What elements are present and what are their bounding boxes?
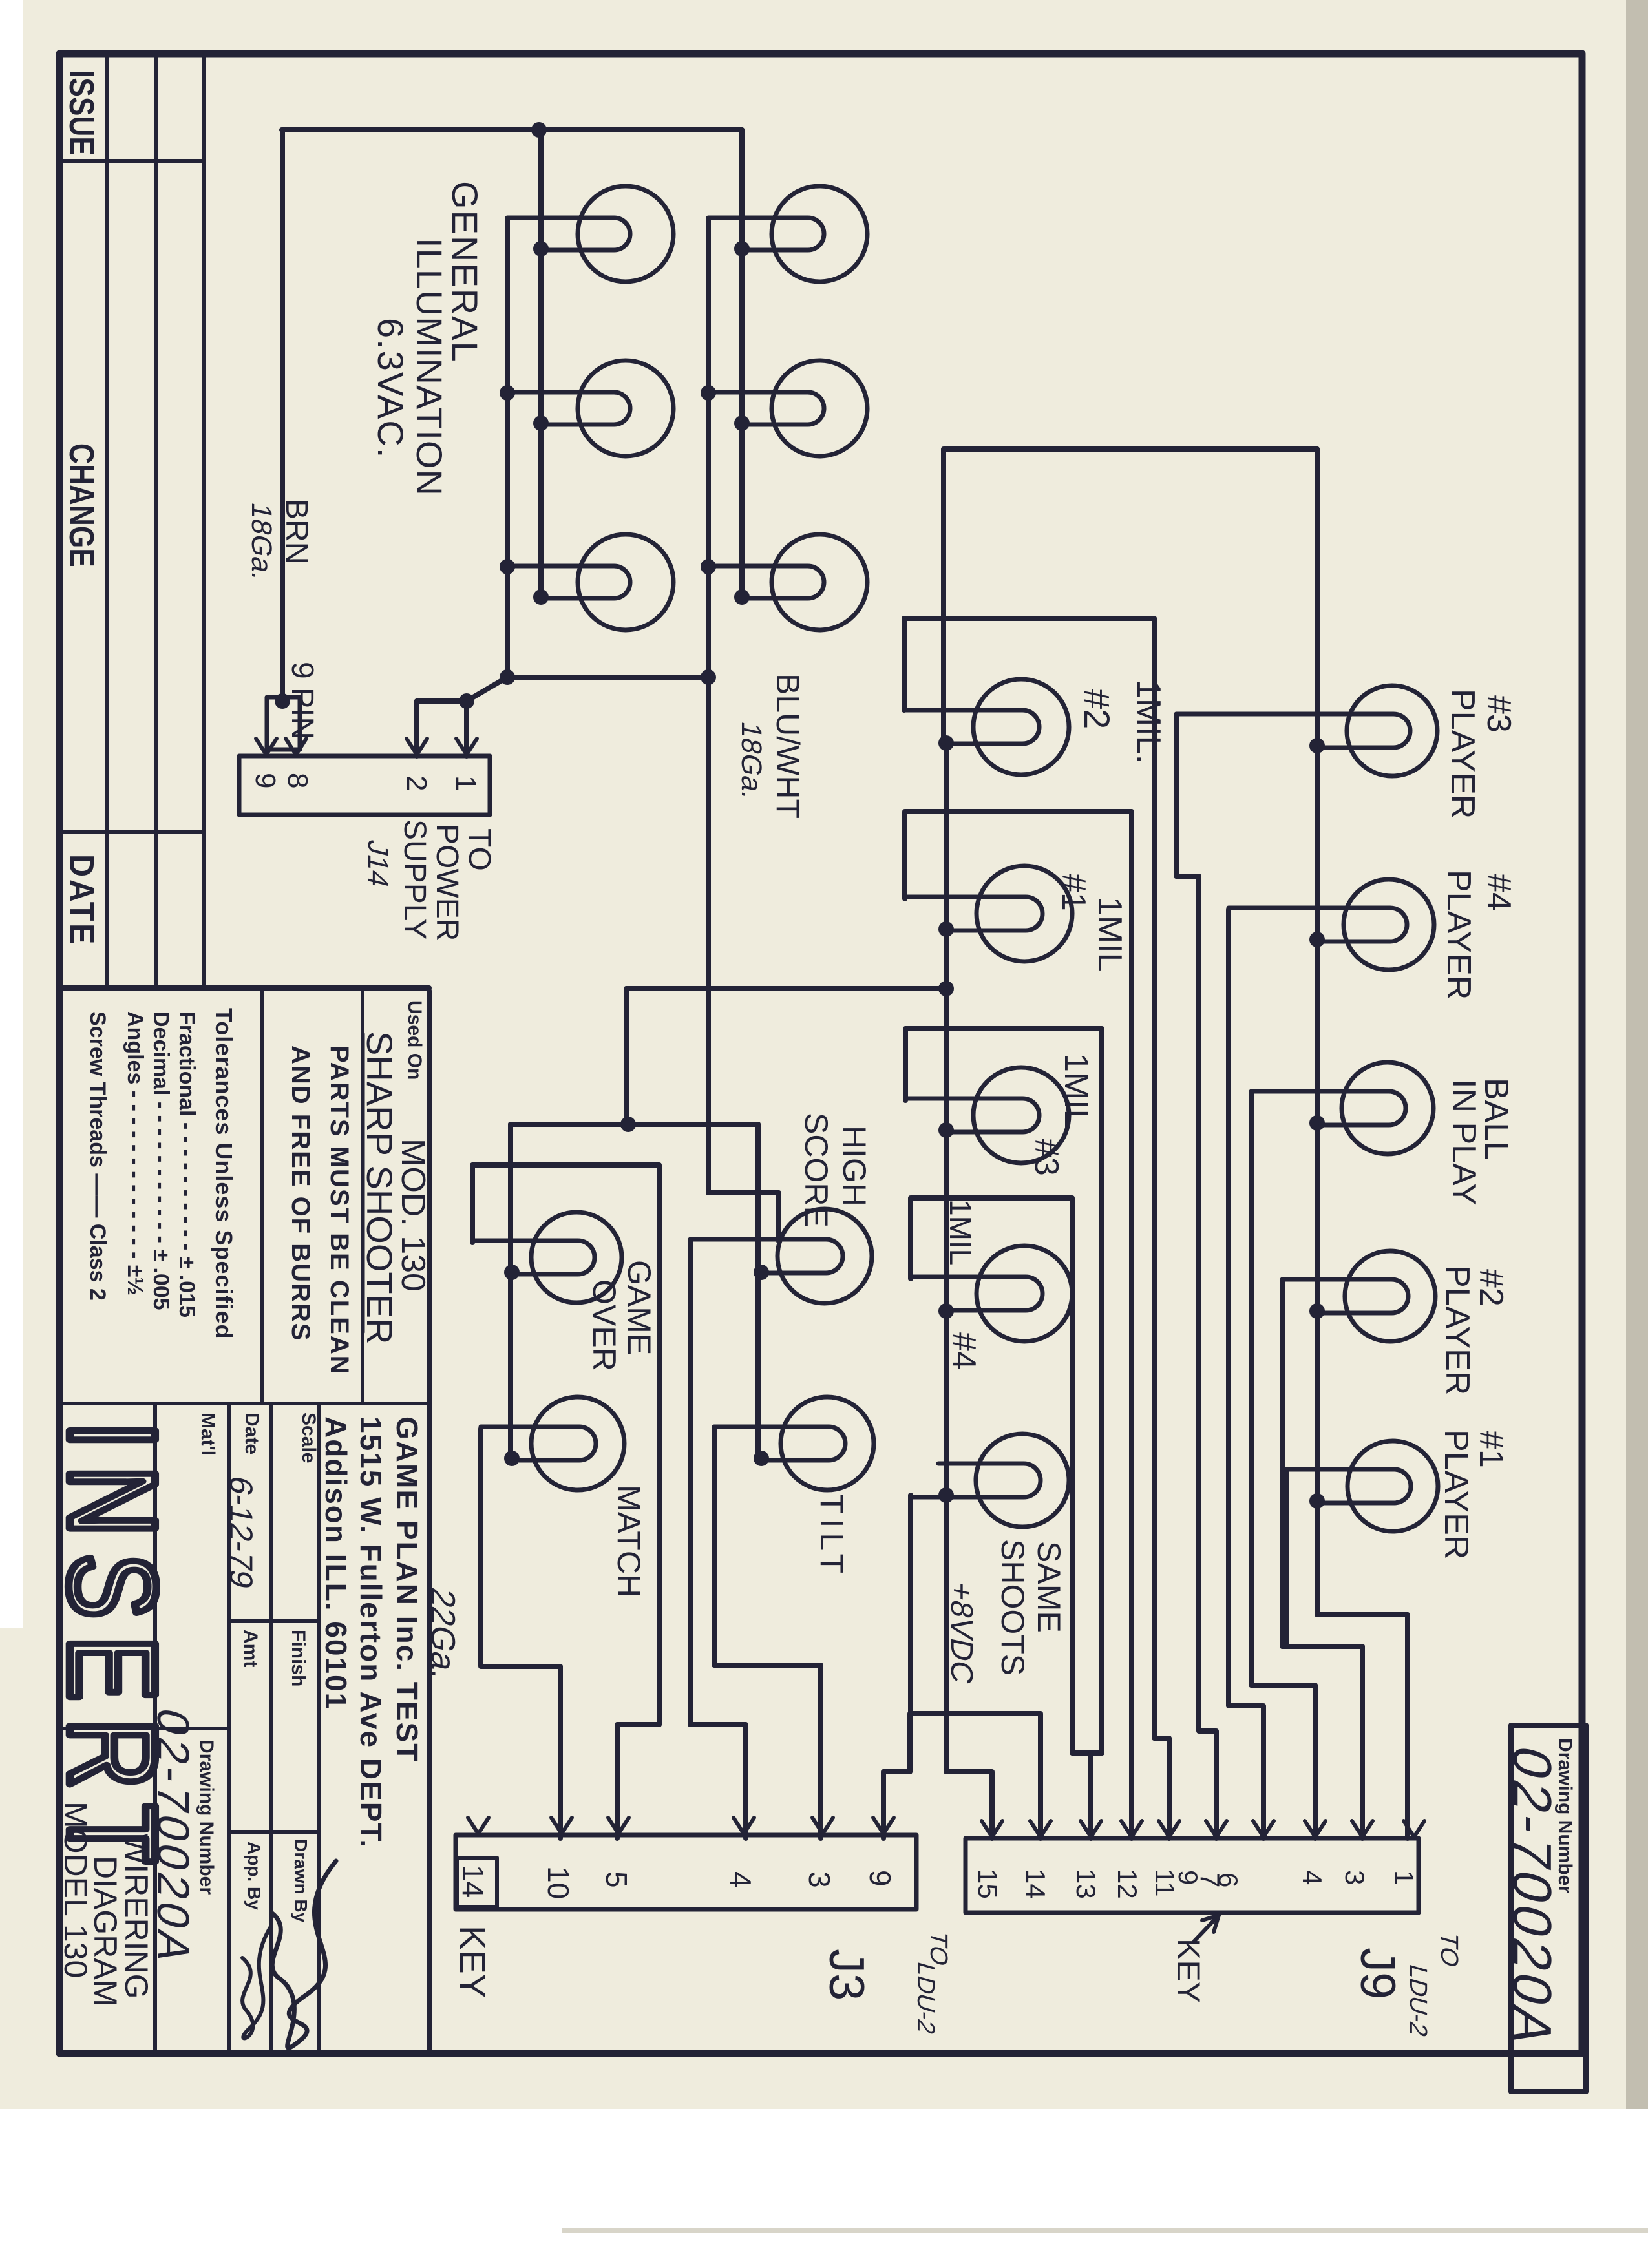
- svg-text:PLAYER: PLAYER: [1440, 870, 1477, 1000]
- svg-text:KEY: KEY: [452, 1926, 493, 1998]
- svg-text:3: 3: [803, 1871, 836, 1888]
- svg-text:9 PIN: 9 PIN: [285, 662, 319, 739]
- svg-text:3: 3: [1340, 1870, 1370, 1885]
- svg-text:SCORE: SCORE: [798, 1113, 834, 1228]
- svg-text:J14: J14: [362, 837, 393, 891]
- svg-text:Addison ILL. 60101: Addison ILL. 60101: [319, 1416, 353, 1710]
- svg-text:#4: #4: [945, 1332, 982, 1370]
- svg-text:13: 13: [1071, 1869, 1101, 1899]
- svg-text:Tolerances Unless Specified: Tolerances Unless Specified: [211, 1008, 237, 1339]
- svg-text:ILLUMINATION: ILLUMINATION: [409, 238, 450, 496]
- svg-text:#2: #2: [1472, 1269, 1510, 1307]
- svg-text:J9: J9: [1350, 1948, 1405, 1999]
- svg-text:02-70020A: 02-70020A: [1501, 1740, 1562, 2055]
- svg-text:#4: #4: [1480, 874, 1517, 911]
- svg-text:10: 10: [542, 1866, 575, 1899]
- svg-text:1MIL.: 1MIL.: [1130, 680, 1167, 764]
- svg-text:14: 14: [1020, 1869, 1051, 1899]
- svg-text:5: 5: [600, 1871, 633, 1888]
- svg-text:PLAYER: PLAYER: [1439, 1265, 1476, 1395]
- svg-text:14: 14: [456, 1865, 490, 1898]
- svg-text:8: 8: [282, 773, 313, 788]
- svg-text:PLAYER: PLAYER: [1437, 1429, 1475, 1559]
- svg-text:15: 15: [973, 1869, 1003, 1899]
- svg-text:LDU-2: LDU-2: [1404, 1961, 1431, 2040]
- svg-text:TILT: TILT: [814, 1494, 850, 1579]
- svg-text:22Ga.: 22Ga.: [424, 1584, 461, 1684]
- svg-text:6: 6: [1213, 1873, 1243, 1887]
- svg-text:BLU/WHT: BLU/WHT: [770, 673, 806, 819]
- svg-text:Mat'l: Mat'l: [197, 1412, 218, 1456]
- svg-text:4: 4: [724, 1871, 757, 1888]
- svg-text:AND FREE OF BURRS: AND FREE OF BURRS: [286, 1045, 315, 1341]
- svg-text:1MIL: 1MIL: [1057, 1053, 1095, 1128]
- svg-text:6-12-79: 6-12-79: [223, 1473, 259, 1592]
- svg-text:DATE: DATE: [62, 854, 101, 947]
- svg-text:Fractional - - - - - - - - - -: Fractional - - - - - - - - - - ± .015: [174, 1011, 199, 1318]
- svg-text:#3: #3: [1480, 695, 1517, 733]
- svg-text:MODEL 130: MODEL 130: [58, 1801, 94, 1978]
- svg-text:1: 1: [1389, 1870, 1419, 1885]
- svg-text:Scale: Scale: [298, 1412, 319, 1463]
- svg-text:#3: #3: [1028, 1139, 1065, 1176]
- svg-text:Drawing Number: Drawing Number: [196, 1739, 217, 1895]
- svg-text:ISSUE: ISSUE: [62, 70, 101, 156]
- svg-text:BRN: BRN: [279, 499, 313, 564]
- svg-text:PARTS MUST BE CLEAN: PARTS MUST BE CLEAN: [325, 1045, 354, 1376]
- svg-text:Used On: Used On: [404, 1000, 425, 1080]
- svg-text:Decimal - - - - - - - - - - -: Decimal - - - - - - - - - - - ± .005: [149, 1011, 173, 1310]
- svg-text:18Ga.: 18Ga.: [246, 500, 277, 584]
- svg-text:+8VDC: +8VDC: [944, 1579, 978, 1687]
- svg-text:Date: Date: [241, 1412, 262, 1454]
- svg-text:Angles - - - - - - - - - - - -: Angles - - - - - - - - - - - - - ±½: [123, 1011, 147, 1296]
- svg-text:POWER: POWER: [430, 824, 464, 941]
- svg-text:LDU-2: LDU-2: [912, 1958, 939, 2037]
- svg-text:12: 12: [1112, 1869, 1143, 1899]
- svg-text:18Ga.: 18Ga.: [735, 719, 766, 803]
- svg-text:GENERAL: GENERAL: [445, 181, 485, 363]
- svg-text:App. By: App. By: [244, 1842, 264, 1910]
- svg-text:J3: J3: [819, 1949, 874, 2000]
- svg-text:KEY: KEY: [1170, 1938, 1207, 2003]
- svg-text:1MIL: 1MIL: [1091, 897, 1128, 972]
- svg-text:1: 1: [450, 775, 481, 791]
- svg-text:SUPPLY: SUPPLY: [397, 819, 432, 940]
- svg-text:OVER: OVER: [586, 1279, 622, 1371]
- svg-text:4: 4: [1297, 1870, 1327, 1885]
- svg-text:Amt: Amt: [240, 1630, 261, 1667]
- svg-text:PLAYER: PLAYER: [1444, 689, 1481, 819]
- svg-text:Finish: Finish: [288, 1630, 309, 1686]
- svg-text:SAME: SAME: [1031, 1541, 1067, 1633]
- svg-text:IN PLAY: IN PLAY: [1445, 1079, 1483, 1206]
- svg-text:HIGH: HIGH: [836, 1126, 872, 1206]
- svg-text:CHANGE: CHANGE: [62, 443, 101, 567]
- svg-text:#1: #1: [1472, 1431, 1510, 1468]
- svg-text:Drawn By: Drawn By: [291, 1839, 311, 1923]
- svg-text:1515 W. Fullerton Ave DEPT.: 1515 W. Fullerton Ave DEPT.: [354, 1416, 388, 1849]
- svg-text:#1: #1: [1055, 874, 1092, 911]
- svg-text:SHOOTS: SHOOTS: [995, 1539, 1031, 1675]
- svg-text:GAME: GAME: [621, 1260, 657, 1355]
- svg-text:9: 9: [863, 1870, 897, 1887]
- svg-text:TO: TO: [462, 828, 496, 871]
- svg-text:9: 9: [249, 773, 281, 788]
- svg-text:2: 2: [401, 775, 432, 791]
- svg-text:MATCH: MATCH: [611, 1485, 647, 1597]
- svg-text:#2: #2: [1077, 689, 1117, 729]
- svg-text:1MIL: 1MIL: [944, 1199, 977, 1265]
- svg-text:GAME PLAN Inc. TEST: GAME PLAN Inc. TEST: [390, 1416, 424, 1763]
- svg-text:6.3VAC.: 6.3VAC.: [370, 318, 411, 459]
- svg-text:SHARP SHOOTER: SHARP SHOOTER: [359, 1031, 400, 1344]
- svg-text:Screw Threads —— Class 2: Screw Threads —— Class 2: [85, 1011, 110, 1301]
